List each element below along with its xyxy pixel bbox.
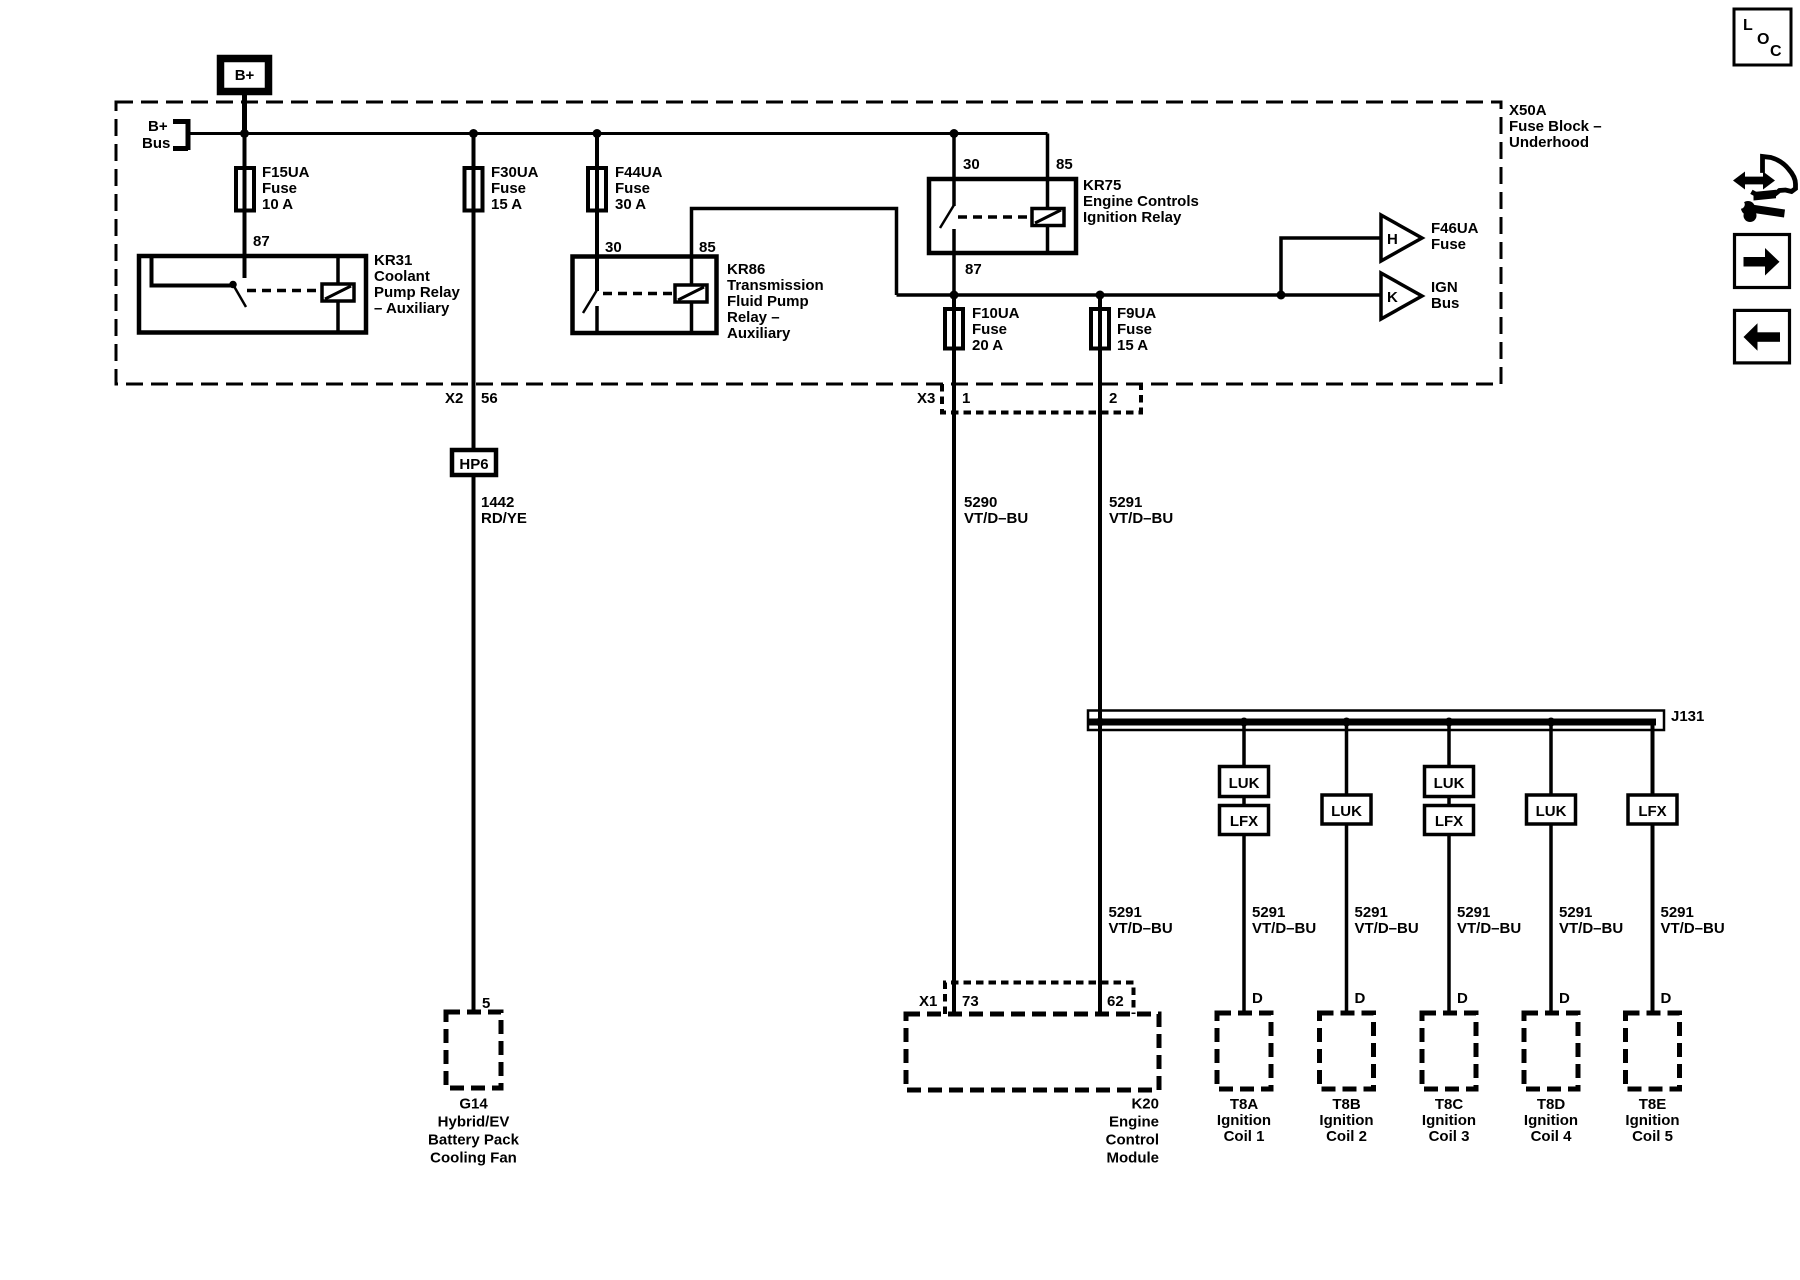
svg-text:Fuse: Fuse <box>491 180 526 197</box>
svg-text:K: K <box>1387 289 1398 306</box>
fuse F30UA <box>465 164 539 213</box>
svg-text:– Auxiliary: – Auxiliary <box>374 300 450 317</box>
svg-text:Battery Pack: Battery Pack <box>428 1132 520 1149</box>
svg-text:G14: G14 <box>459 1096 488 1113</box>
svg-text:LFX: LFX <box>1435 813 1463 830</box>
svg-text:K20: K20 <box>1131 1096 1159 1113</box>
svg-text:KR75: KR75 <box>1083 177 1121 194</box>
ignition coil T8B <box>1319 1013 1373 1145</box>
svg-text:C: C <box>1770 43 1782 60</box>
node feed-H branch junction <box>1277 291 1286 300</box>
svg-text:Fuse: Fuse <box>615 180 650 197</box>
node B+ bus junction <box>240 129 249 138</box>
svg-text:10 A: 10 A <box>262 196 293 213</box>
svg-text:56: 56 <box>481 390 498 407</box>
svg-text:Engine Controls: Engine Controls <box>1083 193 1199 210</box>
svg-text:LUK: LUK <box>1331 803 1362 820</box>
label wire 1442 <box>481 494 527 527</box>
B+ terminal box <box>221 59 269 92</box>
svg-text:Fuse: Fuse <box>1117 321 1152 338</box>
svg-text:T8D: T8D <box>1537 1096 1566 1113</box>
node J131 tap 4 <box>1547 718 1556 727</box>
svg-text:T8E: T8E <box>1639 1096 1667 1113</box>
option code LUK column 2 <box>1322 795 1371 824</box>
node J131 tap 2 <box>1342 718 1351 727</box>
label wire 5291 column 1 <box>1252 904 1316 937</box>
svg-text:15 A: 15 A <box>1117 337 1148 354</box>
option code LFX column 1 <box>1220 806 1269 835</box>
svg-text:LFX: LFX <box>1230 813 1258 830</box>
svg-text:RD/YE: RD/YE <box>481 510 527 527</box>
svg-text:30: 30 <box>605 239 622 256</box>
wire B+ bus horizontal <box>188 132 1048 135</box>
svg-text:T8B: T8B <box>1332 1096 1361 1113</box>
node J131 tap 3 <box>1445 718 1454 727</box>
svg-text:T8A: T8A <box>1230 1096 1259 1113</box>
module K20 <box>906 1014 1159 1167</box>
svg-text:D: D <box>1661 990 1672 1007</box>
option code LUK column 4 <box>1527 795 1576 824</box>
wire bus corner to KR75 pin 85 <box>1046 134 1050 209</box>
node bus-KR75 junction <box>950 129 959 138</box>
label wire 5291 column 0 <box>1109 904 1173 937</box>
ignition coil T8C <box>1422 1013 1476 1145</box>
svg-text:T8C: T8C <box>1435 1096 1464 1113</box>
svg-text:5291: 5291 <box>1457 904 1490 921</box>
svg-text:Coil 4: Coil 4 <box>1531 1128 1572 1145</box>
svg-text:F44UA: F44UA <box>615 164 663 181</box>
svg-text:F10UA: F10UA <box>972 305 1020 322</box>
svg-text:VT/D–BU: VT/D–BU <box>964 510 1028 527</box>
option code LUK column 1 <box>1220 767 1269 797</box>
svg-text:LFX: LFX <box>1638 803 1666 820</box>
connector X3 <box>917 384 1141 413</box>
svg-text:X3: X3 <box>917 390 935 407</box>
wire B+ drop to bus <box>242 95 247 135</box>
svg-text:Relay –: Relay – <box>727 309 780 326</box>
option code LFX column 5 <box>1628 795 1677 824</box>
label wire 5291 <box>1109 494 1173 527</box>
svg-text:LUK: LUK <box>1434 775 1465 792</box>
svg-text:85: 85 <box>1056 156 1073 173</box>
svg-text:Fuse: Fuse <box>262 180 297 197</box>
svg-text:H: H <box>1387 231 1398 248</box>
svg-text:62: 62 <box>1107 993 1124 1010</box>
svg-text:Module: Module <box>1107 1150 1160 1167</box>
svg-text:Bus: Bus <box>1431 295 1459 312</box>
svg-text:Bus: Bus <box>142 135 170 152</box>
label wire 5291 column 2 <box>1355 904 1419 937</box>
svg-text:Cooling Fan: Cooling Fan <box>430 1150 517 1167</box>
svg-text:Control: Control <box>1106 1132 1159 1149</box>
ignition coil T8A <box>1217 1013 1271 1145</box>
svg-text:5291: 5291 <box>1559 904 1592 921</box>
svg-text:F46UA: F46UA <box>1431 220 1479 237</box>
option code LUK column 3 <box>1425 767 1474 797</box>
label wire 5290 <box>964 494 1028 527</box>
wire J131 to T8B <box>1345 722 1349 1013</box>
svg-text:J131: J131 <box>1671 708 1704 725</box>
svg-text:KR31: KR31 <box>374 252 412 269</box>
svg-text:L: L <box>1743 17 1753 34</box>
node bus-F44UA junction <box>593 129 602 138</box>
svg-text:Coil 5: Coil 5 <box>1632 1128 1673 1145</box>
junction block J131 <box>1088 708 1704 730</box>
svg-text:5291: 5291 <box>1109 494 1142 511</box>
node J131-5291 junction <box>1096 718 1105 727</box>
wire KR75 pin 87 down <box>952 229 956 295</box>
node feed-F9UA junction <box>1096 291 1105 300</box>
svg-text:HP6: HP6 <box>459 456 488 473</box>
node J131 tap 1 <box>1240 718 1249 727</box>
svg-text:5: 5 <box>482 995 490 1012</box>
svg-text:Ignition: Ignition <box>1217 1112 1271 1129</box>
svg-text:VT/D–BU: VT/D–BU <box>1355 920 1419 937</box>
svg-text:73: 73 <box>962 993 979 1010</box>
svg-text:5291: 5291 <box>1661 904 1694 921</box>
icon back arrow box <box>1735 310 1790 363</box>
fuse block X50A dashed outline <box>116 102 1501 384</box>
wire 5290 F10UA to K20 pin 73 <box>952 295 956 1014</box>
svg-text:VT/D–BU: VT/D–BU <box>1252 920 1316 937</box>
svg-text:LUK: LUK <box>1536 803 1567 820</box>
relay KR75 <box>929 177 1199 253</box>
svg-text:1442: 1442 <box>481 494 514 511</box>
svg-text:Ignition: Ignition <box>1625 1112 1679 1129</box>
svg-text:KR86: KR86 <box>727 261 765 278</box>
svg-text:Transmission: Transmission <box>727 277 824 294</box>
svg-text:30 A: 30 A <box>615 196 646 213</box>
label wire 5291 column 4 <box>1559 904 1623 937</box>
svg-text:X50A: X50A <box>1509 102 1547 119</box>
svg-text:D: D <box>1559 990 1570 1007</box>
wire J131 to T8D <box>1549 722 1553 1013</box>
svg-text:Ignition: Ignition <box>1524 1112 1578 1129</box>
svg-text:VT/D–BU: VT/D–BU <box>1457 920 1521 937</box>
svg-text:Auxiliary: Auxiliary <box>727 325 791 342</box>
svg-text:Ignition: Ignition <box>1422 1112 1476 1129</box>
label wire 5291 column 3 <box>1457 904 1521 937</box>
fuse F9UA <box>1091 305 1156 354</box>
wire J131 to T8A <box>1242 722 1246 1013</box>
svg-text:Fluid Pump: Fluid Pump <box>727 293 809 310</box>
X50A label <box>1509 102 1602 151</box>
svg-text:5291: 5291 <box>1355 904 1388 921</box>
svg-text:O: O <box>1757 31 1769 48</box>
node feed-F10UA junction <box>950 291 959 300</box>
wire KR86 pin 85 up and over to ignition feed <box>692 209 897 296</box>
wire 5291 F9UA down through J131 to K20 pin 62 <box>1098 295 1102 1014</box>
svg-text:15 A: 15 A <box>491 196 522 213</box>
icon forward arrow box <box>1735 235 1790 288</box>
wire J131 to T8E <box>1651 719 1655 1013</box>
label wire 5291 column 5 <box>1661 904 1725 937</box>
svg-text:5291: 5291 <box>1109 904 1142 921</box>
wire bus to F30UA <box>472 134 476 451</box>
option code LFX column 3 <box>1425 806 1474 835</box>
svg-text:B+: B+ <box>235 67 255 84</box>
svg-text:VT/D–BU: VT/D–BU <box>1661 920 1725 937</box>
svg-text:LUK: LUK <box>1229 775 1260 792</box>
svg-text:X1: X1 <box>919 993 937 1010</box>
svg-text:Engine: Engine <box>1109 1114 1159 1131</box>
svg-text:85: 85 <box>699 239 716 256</box>
wire ignition feed horizontal <box>897 293 1382 297</box>
relay KR86 <box>573 257 824 343</box>
svg-text:D: D <box>1457 990 1468 1007</box>
svg-text:Pump Relay: Pump Relay <box>374 284 461 301</box>
B+ Bus bracket <box>142 118 188 152</box>
svg-text:20 A: 20 A <box>972 337 1003 354</box>
svg-text:5290: 5290 <box>964 494 997 511</box>
svg-text:Coil 1: Coil 1 <box>1224 1128 1265 1145</box>
svg-text:F9UA: F9UA <box>1117 305 1156 322</box>
svg-text:Ignition: Ignition <box>1319 1112 1373 1129</box>
svg-text:87: 87 <box>253 233 270 250</box>
ignition coil T8E <box>1625 1013 1679 1145</box>
icon vehicle service <box>1733 157 1796 223</box>
legend LOC box <box>1734 9 1791 65</box>
svg-text:Coil 2: Coil 2 <box>1326 1128 1367 1145</box>
svg-text:Ignition Relay: Ignition Relay <box>1083 209 1182 226</box>
svg-text:D: D <box>1355 990 1366 1007</box>
svg-text:VT/D–BU: VT/D–BU <box>1559 920 1623 937</box>
wire bus to F44UA <box>595 134 599 292</box>
relay KR31 <box>139 252 461 333</box>
svg-text:Fuse: Fuse <box>1431 236 1466 253</box>
fuse F15UA <box>236 164 310 213</box>
svg-text:Coolant: Coolant <box>374 268 430 285</box>
svg-text:Underhood: Underhood <box>1509 134 1589 151</box>
svg-text:Coil 3: Coil 3 <box>1429 1128 1470 1145</box>
svg-text:5291: 5291 <box>1252 904 1285 921</box>
ground component G14 <box>428 1012 520 1167</box>
ignition coil T8D <box>1524 1013 1578 1145</box>
wire 1442 HP6 to G14 <box>472 476 476 1012</box>
svg-text:Fuse Block –: Fuse Block – <box>1509 118 1602 135</box>
svg-text:30: 30 <box>963 156 980 173</box>
svg-text:F15UA: F15UA <box>262 164 310 181</box>
svg-text:Hybrid/EV: Hybrid/EV <box>438 1114 510 1131</box>
svg-text:D: D <box>1252 990 1263 1007</box>
svg-text:F30UA: F30UA <box>491 164 539 181</box>
svg-text:VT/D–BU: VT/D–BU <box>1109 920 1173 937</box>
svg-text:2: 2 <box>1109 390 1117 407</box>
svg-text:Fuse: Fuse <box>972 321 1007 338</box>
arrow H to F46UA fuse <box>1381 215 1479 261</box>
fuse F10UA <box>945 305 1020 354</box>
arrow K to IGN bus <box>1381 273 1459 319</box>
svg-text:87: 87 <box>965 261 982 278</box>
wire branch to fuse F46UA arrow <box>1281 238 1381 295</box>
wire bus to KR75 pin 30 <box>952 134 956 207</box>
svg-text:B+: B+ <box>148 118 168 135</box>
node bus-F30UA junction <box>469 129 478 138</box>
wire J131 to T8C <box>1447 722 1451 1013</box>
connector X1 <box>919 983 1134 1015</box>
splice pack HP6 <box>452 450 496 475</box>
fuse F44UA <box>588 164 663 213</box>
connector X2 labels <box>445 390 498 407</box>
svg-text:X2: X2 <box>445 390 463 407</box>
svg-text:1: 1 <box>962 390 970 407</box>
svg-text:VT/D–BU: VT/D–BU <box>1109 510 1173 527</box>
svg-text:IGN: IGN <box>1431 279 1458 296</box>
